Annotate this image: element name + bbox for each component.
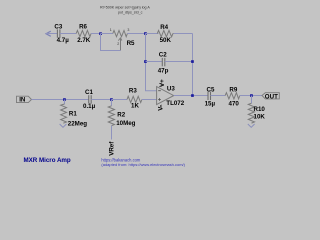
node C2 left (144, 60, 147, 63)
resistor R3 (127, 96, 142, 102)
svg-text:TL072: TL072 (166, 100, 184, 107)
node (C1/R2/R3 junction) (110, 98, 113, 101)
IN port flag (17, 96, 32, 103)
svg-text:IN: IN (19, 97, 26, 104)
svg-text:R5: R5 (127, 40, 135, 47)
svg-text:Rt=500K wiper set=(gain) log A: Rt=500K wiper set=(gain) log A (100, 6, 150, 10)
wiper of R5 (120, 38, 122, 51)
svg-text:47p: 47p (158, 68, 169, 75)
op-amp U3 (157, 79, 185, 111)
svg-text:R9: R9 (229, 86, 237, 93)
wire C3-to-R6 (60, 33, 76, 35)
resistor R10 (248, 96, 265, 124)
svg-text:OUT: OUT (265, 93, 278, 100)
svg-text:VRef: VRef (108, 141, 115, 156)
svg-text:C1: C1 (85, 89, 93, 96)
svg-text:R6: R6 (79, 24, 87, 31)
svg-text:R4: R4 (160, 24, 168, 31)
OUT port flag (262, 93, 279, 101)
svg-text:2.7K: 2.7K (77, 37, 91, 44)
wire nodeC2L-to-C2 (146, 61, 163, 63)
svg-text:22Meg: 22Meg (68, 121, 87, 128)
svg-text:C2: C2 (159, 51, 167, 58)
svg-text:0.1µ: 0.1µ (83, 103, 96, 110)
wire R2-to-VRef (111, 126, 113, 140)
svg-text:C5: C5 (207, 86, 215, 93)
svg-text:C3: C3 (54, 23, 62, 30)
svg-text:pot_dtps_std_c: pot_dtps_std_c (118, 11, 143, 15)
node (output junction) (191, 94, 194, 97)
svg-text:V+: V+ (159, 79, 166, 87)
node (R5 left terminal / wiper loop) (99, 32, 102, 35)
minus sign (158, 90, 161, 92)
svg-text:(adapted from: https://www.ele: (adapted from: https://www.electrosmash.… (101, 162, 185, 167)
resistor R2 (108, 100, 135, 127)
svg-text:R2: R2 (117, 111, 125, 118)
wire R6-to-node (91, 33, 100, 35)
svg-text:1: 1 (110, 28, 112, 32)
capacitor C3 (57, 29, 60, 37)
wire right vertical (R4/C2 to output) (192, 34, 194, 96)
wire IN-to-C1 (32, 99, 89, 101)
ground (under R1) (60, 124, 67, 127)
resistor R4 (157, 30, 173, 36)
resistor R6 (76, 31, 91, 37)
wire R3-to-opamp (142, 99, 157, 101)
V- pin (161, 105, 163, 108)
wire node-to-R3 (112, 99, 128, 101)
node (R9/R10/OUT junction) (250, 94, 253, 97)
resistor R9 (225, 93, 240, 99)
pot parameter annotation text (100, 6, 150, 15)
capacitor C5 (208, 92, 211, 100)
svg-text:50K: 50K (160, 37, 172, 44)
svg-text:V-: V- (157, 105, 164, 111)
wire C1-to-node (91, 99, 111, 101)
svg-text:4.7µ: 4.7µ (57, 37, 70, 44)
potentiometer R5 (101, 28, 136, 50)
wire node-to-R5 (101, 33, 113, 35)
svg-text:15µ: 15µ (205, 100, 216, 107)
wire feedback vertical (nodeA to inverting input) (146, 34, 157, 91)
svg-text:2: 2 (117, 42, 119, 46)
wire R5-to-nodeA (127, 33, 145, 35)
capacitor C2 (162, 58, 165, 66)
wire arrow-to-C3 (46, 33, 57, 35)
node (R1 junction) (63, 98, 66, 101)
svg-text:MXR Micro Amp: MXR Micro Amp (24, 157, 71, 164)
capacitor C1 (89, 95, 92, 103)
svg-text:3: 3 (127, 28, 129, 32)
node C2 right (191, 60, 194, 63)
svg-text:1K: 1K (131, 103, 139, 110)
wire C5-to-R9 (211, 95, 226, 97)
V+ pin (161, 83, 163, 86)
wire nodeA-to-R4 (146, 33, 159, 35)
wire R4-to-right-corner (174, 33, 193, 35)
wiper return wire (101, 34, 121, 51)
svg-text:R10: R10 (254, 106, 266, 113)
resistor R1 (61, 100, 88, 128)
svg-text:470: 470 (229, 100, 240, 107)
wire R9-to-OUT (240, 95, 262, 97)
svg-text:R3: R3 (129, 87, 137, 94)
ground (left arrow at C3) (46, 31, 51, 36)
ground (under R10) (248, 124, 255, 127)
svg-text:R1: R1 (69, 110, 77, 117)
svg-text:10Meg: 10Meg (116, 120, 135, 127)
svg-text:10K: 10K (254, 113, 266, 120)
svg-text:U3: U3 (167, 85, 175, 92)
node A (R5/R4/feedback junction) (144, 32, 147, 35)
wire opamp-out-to-C5 (174, 95, 208, 97)
wire C2-to-nodeC2R (165, 61, 193, 63)
plus sign (158, 99, 161, 101)
